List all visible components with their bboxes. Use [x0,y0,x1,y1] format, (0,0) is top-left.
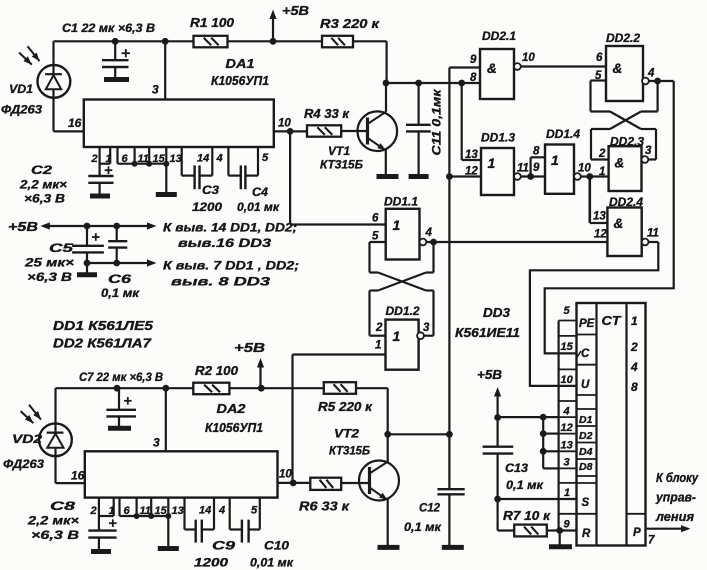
svg-text:5: 5 [251,505,258,517]
logic gate DD1.4 inverter [545,145,574,194]
capacitor C7 22mk [118,388,120,409]
capacitor C1 22mk x6.3V [114,41,116,60]
wire VT1 collector node rail [383,80,390,87]
wire VD1 to DA1 pin 16 [54,130,84,132]
svg-text:4: 4 [216,153,223,165]
wire DD1.2 pin1 to DA2 pin10 node [293,353,386,355]
svg-text:6: 6 [596,52,603,64]
svg-text:3: 3 [153,436,160,450]
logic gate DD2.3 [609,146,642,191]
svg-text:1: 1 [564,487,570,499]
ground bus pins 6 11 15 13 of DA1 [116,147,118,164]
svg-text:R5 220 к: R5 220 к [318,400,373,414]
output bubble DD1.4 [574,173,581,180]
svg-text:+5В: +5В [8,219,38,234]
svg-text:&: & [487,61,497,76]
counter DD3 K561IE11 body [577,303,646,546]
logic gate DD1.2 inverter [386,320,419,370]
svg-text:3: 3 [423,322,430,334]
svg-text:C10: C10 [264,539,289,553]
wire R3 to VT1 collector node [386,41,388,83]
svg-text:10: 10 [278,118,291,130]
svg-text:DD3: DD3 [483,306,510,320]
svg-text:5: 5 [372,231,379,243]
svg-text:0,1 мк: 0,1 мк [506,478,544,492]
svg-text:C4: C4 [252,185,268,199]
svg-text:×6,3 В: ×6,3 В [31,528,79,542]
svg-text:К блоку: К блоку [656,471,699,485]
output bubble DD1.1 [420,239,427,246]
svg-text:VT1: VT1 [328,144,350,158]
capacitor C6 0.1mk [116,226,118,241]
svg-text:2: 2 [91,153,98,165]
logic gate DD2.4 [607,208,641,257]
svg-text:VD2: VD2 [12,432,42,446]
svg-text:9: 9 [564,519,571,531]
wire DD1.4 out to DD2.3 pin1 [581,175,609,177]
output bubble DD2.4 [642,239,649,246]
output bubble DD2.2 [642,78,649,85]
svg-text:C7 22 мк ×6,3 В: C7 22 мк ×6,3 В [79,370,163,384]
svg-text:0,1 мк: 0,1 мк [404,520,442,534]
svg-text:ФД263: ФД263 [1,103,42,117]
svg-text:C1 22 мк ×6,3 В: C1 22 мк ×6,3 В [62,21,155,35]
svg-text:CT: CT [602,313,622,328]
svg-text:13: 13 [465,149,478,161]
svg-text:4: 4 [630,360,638,374]
wire node to DD2.4 pin13 [588,177,591,224]
svg-text:+5В: +5В [282,3,309,18]
capacitor C2 2.2mk [105,169,113,171]
svg-text:10: 10 [522,52,535,64]
power +5V arrow top [272,18,274,41]
logic gate DD1.1 inverter [386,209,420,260]
ground of DA2 bus [158,546,179,551]
svg-text:6: 6 [122,153,129,165]
svg-text:10: 10 [561,374,574,386]
capacitor C8 2.2mk [109,522,117,524]
pin 3 stub DA1 [164,41,166,99]
svg-text:4: 4 [425,227,433,239]
node junction C1 on top rail [112,38,119,45]
svg-text:11: 11 [647,228,659,240]
pin 2 stub DA1 [98,147,100,176]
wire D2 D4 D8 inputs [542,417,544,468]
svg-text:10: 10 [279,469,292,481]
ground of VT1 emitter [377,174,399,179]
wire top +supply rail from VD1 to R1/R3 [54,40,194,42]
power +5V arrow bottom [259,366,261,388]
svg-text:11: 11 [138,153,149,165]
pin 3 stub DA2 [165,388,167,451]
svg-text:К1056УП1: К1056УП1 [205,421,263,435]
ground bus pins 6 11 15 13 of DA2 [118,498,120,516]
svg-text:6: 6 [372,213,379,225]
wire DD2.4 output to counter U input [649,241,659,243]
transistor VT2 KT315B [359,461,399,501]
svg-text:D8: D8 [579,461,593,473]
svg-text:+5В: +5В [234,340,265,355]
svg-text:DD1.3: DD1.3 [481,131,515,145]
svg-text:выв. 8 DD3: выв. 8 DD3 [171,275,270,289]
wire D1 input [498,416,559,418]
wire DD1.3 out to DD1.4 [521,175,545,177]
output bubble DD1.3 [514,173,521,180]
resistor R6 33k [310,478,341,490]
svg-text:9: 9 [470,54,477,66]
ground of C5 rail [77,272,97,277]
svg-text:К561ИЕ11: К561ИЕ11 [455,326,520,340]
cross-coupling latch DD1.1/DD1.2 [370,241,386,243]
svg-text:1: 1 [106,153,112,165]
svg-text:0,1 мк: 0,1 мк [101,286,140,300]
wire bottom supply rail [56,387,194,389]
ground of C2 [90,194,110,199]
svg-text:P: P [633,527,641,539]
svg-text:+5В: +5В [477,367,502,382]
svg-text:C9: C9 [212,539,235,553]
svg-text:13: 13 [170,153,182,165]
svg-text:ления: ления [655,510,695,524]
svg-text:7: 7 [648,535,655,547]
svg-text:1200: 1200 [194,556,228,570]
capacitor C5 25mk [86,226,88,246]
svg-text:DA1: DA1 [226,57,255,71]
svg-text:R6 33 к: R6 33 к [299,500,350,514]
svg-text:4: 4 [218,505,225,517]
svg-text:12: 12 [594,229,607,241]
svg-text:U: U [581,379,590,391]
svg-text:1: 1 [631,314,638,328]
svg-text:&: & [615,156,625,171]
svg-text:11: 11 [517,163,529,175]
resistor R2 100 [193,383,229,395]
svg-text:DD1.2: DD1.2 [386,304,420,318]
node junction pin3 stub on top rail [162,38,169,45]
pin number stub column of DD3 [557,321,559,531]
node DD1.3 pin12 branch [446,173,453,180]
ground of R input [559,531,561,545]
op-amp DA2 K1056UP1 body [85,451,278,497]
svg-text:&: & [613,61,623,76]
output bubble DD2.3 [642,156,649,163]
svg-text:C13: C13 [505,461,528,475]
wire VD2 to DA2 pin 16 [56,482,85,484]
svg-text:C8: C8 [50,499,76,513]
svg-text:4: 4 [647,68,655,80]
svg-text:2: 2 [630,340,638,354]
logic gate DD1.3 inverter [481,148,514,195]
svg-text:управ-: управ- [655,491,696,505]
svg-text:DD2.1: DD2.1 [482,29,516,43]
svg-text:DD2.2: DD2.2 [606,31,640,45]
svg-text:2,2 мк×: 2,2 мк× [19,178,67,192]
svg-text:DD2.3: DD2.3 [610,135,644,149]
light arrows into VD1 [28,46,40,61]
wire DD2.3 out up into latch [648,158,656,160]
photodiode VD1 FD263 [38,65,71,98]
wire DD1.1 out long to DD2.4 pin12 [426,241,607,243]
resistor R5 220k [324,382,356,394]
svg-text:ФД263: ФД263 [3,457,44,471]
svg-text:1: 1 [393,328,401,344]
wire DD2.1 pin9 vertical long line to C12 [448,68,450,489]
svg-text:1: 1 [375,340,381,352]
svg-text:8: 8 [631,380,638,394]
wire DD2.2 output node [649,80,674,82]
wire DA1 pin10 down to DD1.1 pin 6 [289,131,291,224]
svg-text:8: 8 [470,72,477,84]
svg-text:13: 13 [561,440,573,452]
svg-text:12: 12 [465,166,478,178]
svg-text:2: 2 [375,322,383,334]
svg-text:0,01 мк: 0,01 мк [237,200,280,214]
capacitor C12 0.1mk [437,488,464,490]
svg-text:13: 13 [593,211,606,223]
ground of C8 [91,549,111,554]
cell dividers left column DD3 [577,334,597,336]
svg-text:5: 5 [262,152,269,164]
svg-text:VD1: VD1 [9,82,33,96]
svg-text:3: 3 [564,457,570,469]
svg-text:14: 14 [197,153,209,165]
resistor R1 100 [194,36,228,48]
svg-text:DA2: DA2 [217,402,246,416]
pin 1 stub DA1 [109,147,111,164]
power +5V distribution rail [40,222,50,229]
svg-text:R1 100: R1 100 [190,16,234,30]
wire DD1.4 pin8 jog [529,157,531,176]
svg-text:R3 220 к: R3 220 к [320,17,380,31]
svg-text:К1056УП1: К1056УП1 [211,74,269,88]
svg-text:КТ315Б: КТ315Б [320,158,363,172]
svg-text:11: 11 [140,505,151,517]
pin 2 stub DA2 [98,498,100,530]
svg-text:DD2.4: DD2.4 [609,195,643,209]
svg-text:1: 1 [551,152,559,168]
svg-text:12: 12 [561,422,573,434]
svg-text:C11 0,1мк: C11 0,1мк [430,88,444,155]
svg-text:DD2 К561ЛА7: DD2 К561ЛА7 [53,337,152,351]
ground of C1 [104,77,129,82]
output P wire to control unit [646,528,682,530]
svg-text:C: C [581,348,590,360]
capacitor C10 0.01mk [229,498,231,530]
capacitor C3 1200 between pins 14 and 4 [181,147,183,176]
svg-text:К выв. 14 DD1, DD2;: К выв. 14 DD1, DD2; [163,221,297,235]
svg-text:DD1.1: DD1.1 [384,195,418,209]
node C11 top [415,80,422,87]
svg-text:0,01 мк: 0,01 мк [250,556,294,570]
wire DA2 pin 10 to R6 [278,482,311,484]
svg-text:C2: C2 [31,163,52,177]
svg-text:16: 16 [68,116,82,130]
svg-text:D4: D4 [579,446,593,458]
svg-text:5: 5 [564,305,571,317]
svg-text:1: 1 [393,217,401,233]
svg-text:C3: C3 [202,183,219,197]
svg-text:S: S [582,497,590,509]
svg-text:выв.16 DD3: выв.16 DD3 [178,236,271,250]
svg-text:VT2: VT2 [334,427,359,441]
capacitor C13 0.1mk [497,418,499,447]
capacitor C9 1200 [183,498,185,530]
ground of VT2 emitter [378,545,400,550]
svg-text:4: 4 [563,406,570,418]
wire R5 to VT2 collector node [356,387,388,389]
svg-text:R2 100: R2 100 [195,364,238,378]
svg-text:КТ315Б: КТ315Б [329,444,370,458]
svg-text:15: 15 [153,153,166,165]
svg-text:15: 15 [561,341,574,353]
cross-coupling latch DD2.2/DD2.3 [591,79,607,81]
svg-text:R: R [582,528,591,540]
ground of DA1 bus [156,192,177,197]
svg-text:1: 1 [109,505,115,517]
node junction +5V on top rail [270,38,277,45]
wire S input [498,498,577,500]
light arrows into VD2 [29,405,41,420]
svg-text:2: 2 [90,505,97,517]
svg-text:2,2 мк×: 2,2 мк× [27,514,79,528]
svg-text:C6: C6 [108,272,131,286]
ground of C7 [108,426,131,431]
photodiode VD2 FD263 [39,423,72,456]
svg-text:C12: C12 [419,501,440,515]
ground of C11 [409,174,429,179]
capacitor C4 0.01mk on pin 5 [227,147,229,176]
op-amp DA1 K1056UP1 body [84,100,274,148]
resistor R7 10k [497,499,499,531]
logic gate DD2.2 [606,46,643,101]
output bubble DD2.1 [514,63,521,70]
svg-text:&: & [614,216,624,231]
divider P cell DD3 [627,513,646,515]
svg-text:1: 1 [488,155,496,171]
svg-text:DD1.4: DD1.4 [546,127,580,141]
svg-text:14: 14 [199,505,211,517]
svg-text:×6,3 В: ×6,3 В [24,192,65,206]
resistor R3 220k [322,36,353,48]
svg-text:DD1 К561ЛЕ5: DD1 К561ЛЕ5 [53,319,154,333]
svg-text:25 мк×: 25 мк× [24,256,74,270]
svg-text:PE: PE [579,318,595,330]
ground of C12 [442,545,464,550]
ground wire rail 2 [87,262,148,264]
svg-text:×6,3 В: ×6,3 В [27,270,72,284]
svg-text:2: 2 [598,148,606,160]
svg-text:8: 8 [533,146,540,158]
svg-text:3: 3 [645,145,652,157]
svg-text:1200: 1200 [192,200,222,214]
logic gate DD2.1 [480,49,514,99]
wire DD2.1 out to DD2.2 pin6 [521,65,606,67]
transistor VT1 KT315B [358,111,398,151]
svg-text:D1: D1 [579,414,593,426]
svg-text:R7 10 к: R7 10 к [503,509,551,523]
svg-text:R4 33 к: R4 33 к [304,107,350,121]
svg-text:13: 13 [172,505,184,517]
svg-text:10: 10 [578,163,591,175]
output bubble DD1.2 [417,332,424,339]
pin 1 stub DA2 [113,498,115,516]
wire DD2.3 pin2 from latch [591,158,609,160]
node DD2.1 pin8 branch [458,80,465,87]
svg-text:6: 6 [124,505,131,517]
svg-text:16: 16 [71,469,85,483]
svg-text:3: 3 [152,83,159,97]
dynamic input mark on C [577,351,582,358]
svg-text:К выв. 7 DD1 , DD2;: К выв. 7 DD1 , DD2; [163,259,299,273]
wire DA1 pin 10 to R4 [274,130,307,132]
svg-text:15: 15 [155,505,168,517]
svg-text:9: 9 [533,162,540,174]
svg-text:C5: C5 [49,241,74,255]
capacitor C11 0.1mk [418,83,420,125]
wire DD2.2 out feedback to counter C input [545,81,674,353]
wire DD1.3 pin13 from VT1 node [461,83,463,160]
resistor R4 33k [307,125,341,136]
svg-text:D2: D2 [579,430,593,442]
